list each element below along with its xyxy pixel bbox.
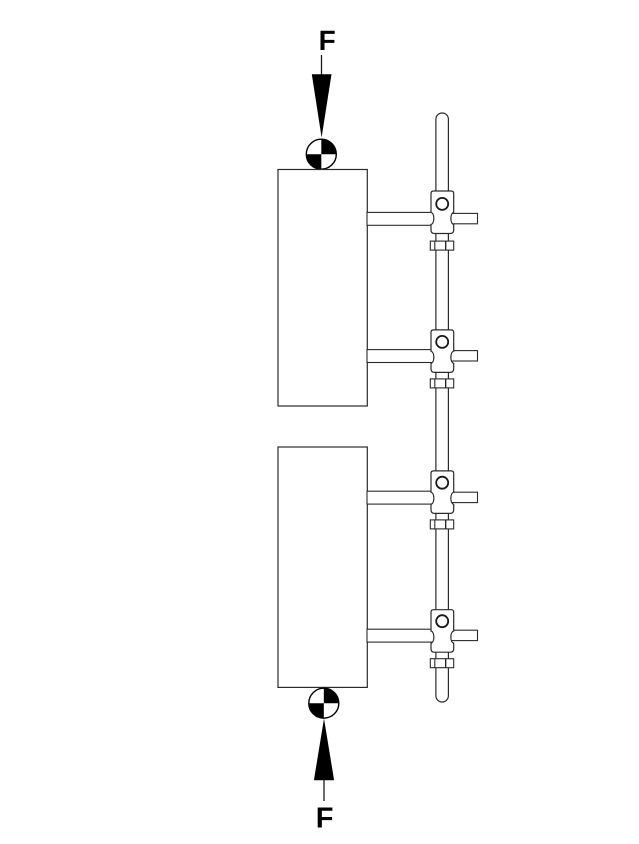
cross bar 4 right segment <box>451 630 478 640</box>
clamp 1 body <box>431 191 454 234</box>
svg-text:F: F <box>316 803 334 835</box>
clamp 4 body <box>431 610 454 653</box>
cross bar 1 right segment <box>451 213 478 223</box>
force arrow head top <box>312 74 332 137</box>
specimen block lower <box>278 447 367 687</box>
cross bar 2 left segment <box>367 350 435 363</box>
clamp 3 nut <box>430 520 453 529</box>
center of mass symbol bottom <box>309 688 339 718</box>
force arrow head bottom <box>314 719 334 781</box>
support rod <box>436 113 449 702</box>
clamp 2 body <box>431 330 454 373</box>
cross bar 1 left segment <box>367 212 435 225</box>
clamp 1 nut <box>430 241 453 250</box>
center of mass symbol top <box>306 139 336 169</box>
cross bar 3 left segment <box>367 491 435 504</box>
clamp 3 body <box>431 471 454 514</box>
specimen block upper <box>278 170 367 407</box>
clamp 4 nut <box>430 659 453 668</box>
cross bar 4 left segment <box>367 629 435 642</box>
clamp 2 nut <box>430 379 453 388</box>
force arrow shaft bottom <box>323 780 325 801</box>
force arrow shaft top <box>321 55 323 75</box>
cross bar 3 right segment <box>451 492 478 502</box>
svg-text:F: F <box>319 25 336 56</box>
cross bar 2 right segment <box>451 351 478 361</box>
